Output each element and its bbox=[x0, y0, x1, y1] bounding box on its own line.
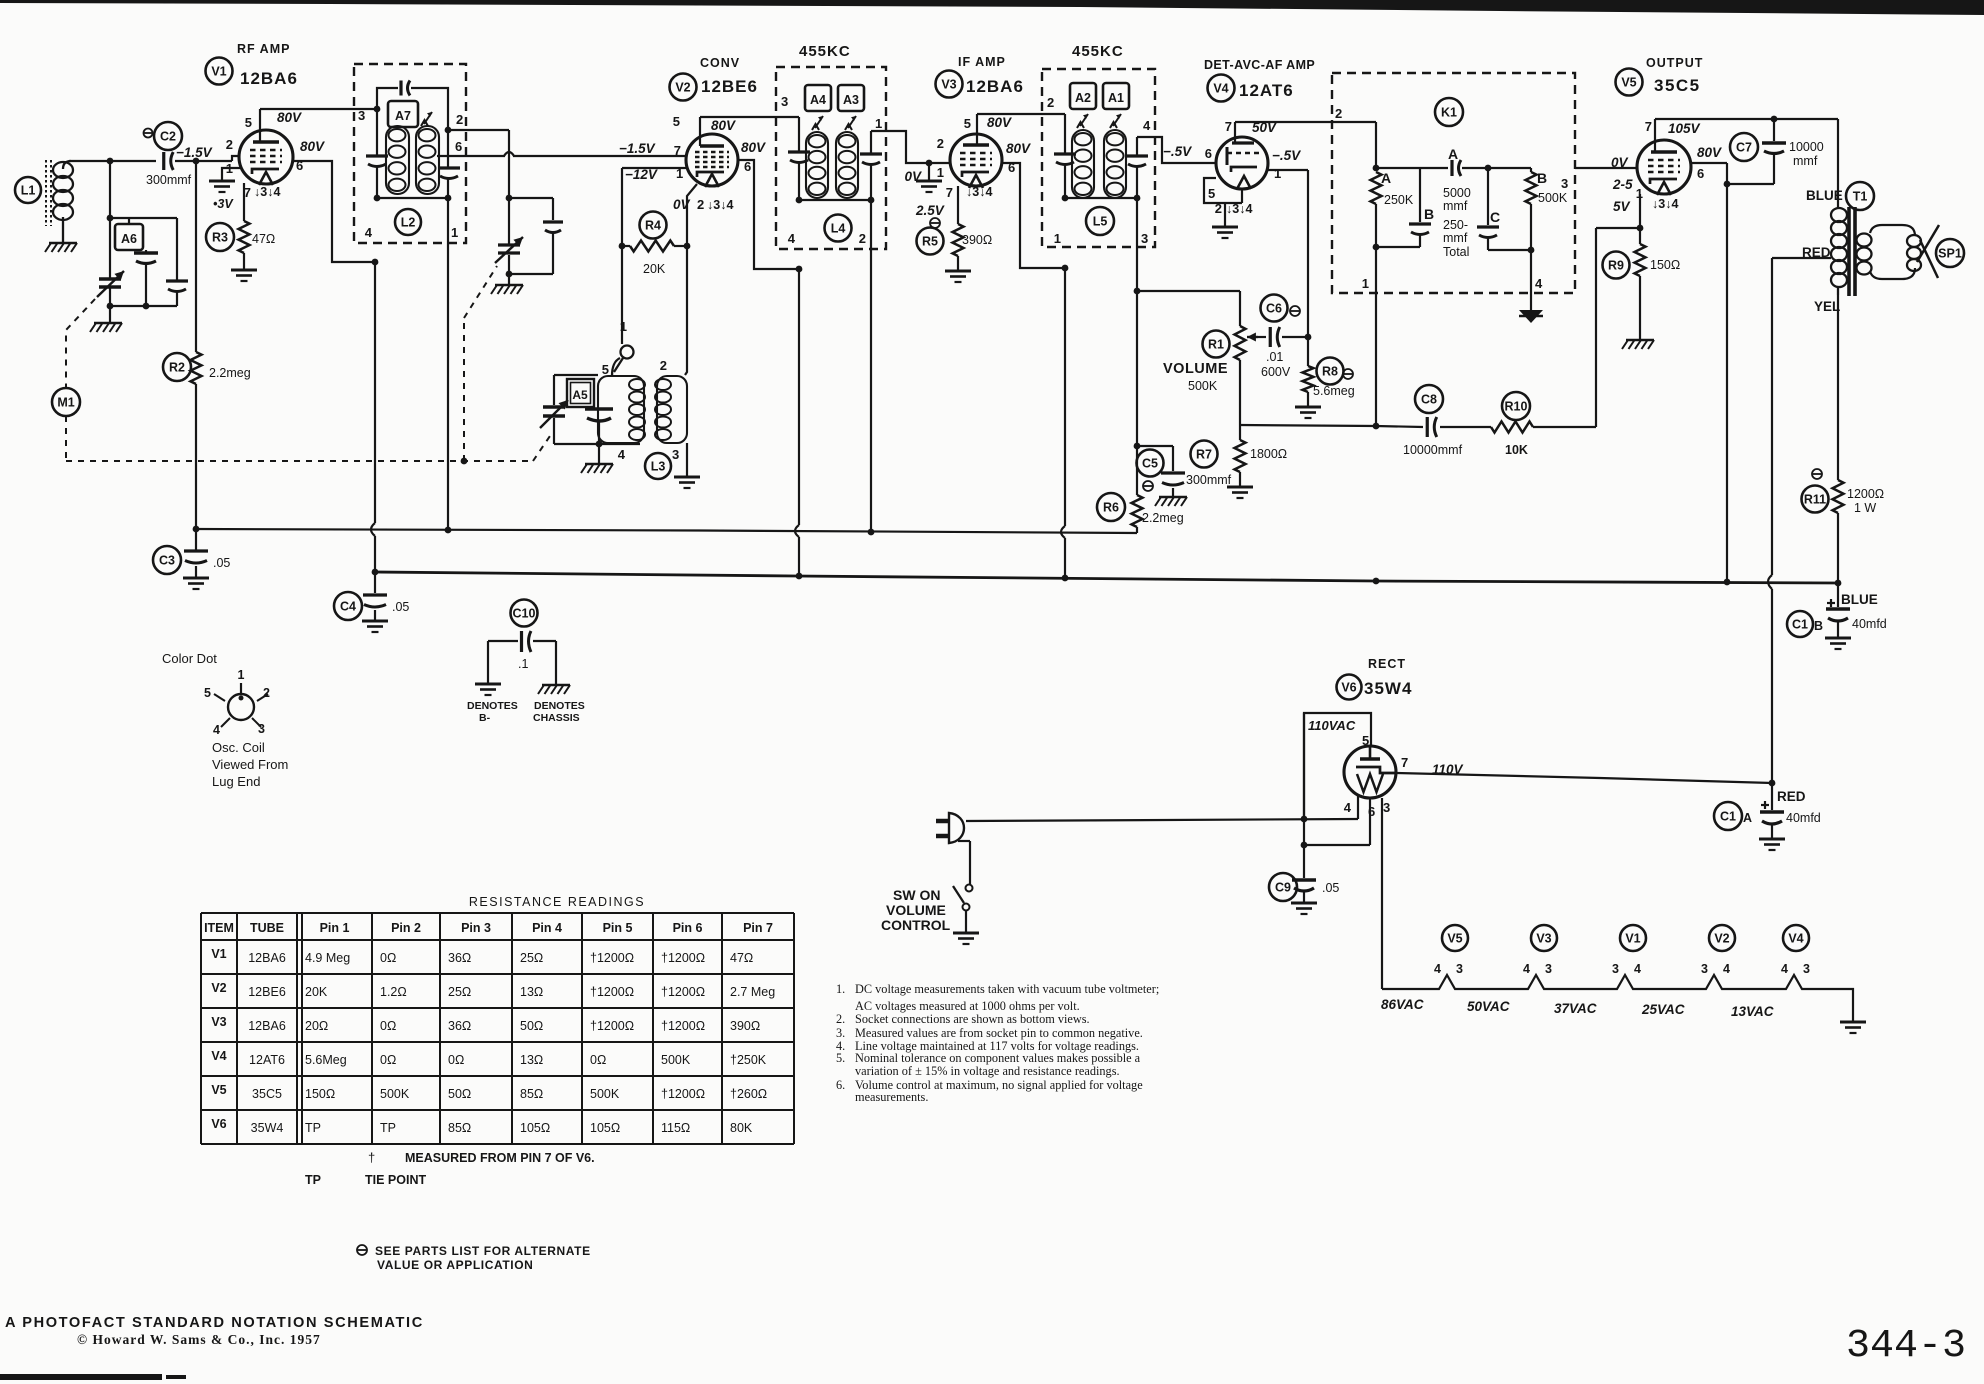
svg-text:R6: R6 bbox=[1103, 501, 1119, 515]
wire to ground bbox=[109, 306, 111, 322]
svg-text:105Ω: 105Ω bbox=[590, 1121, 620, 1135]
tube type 12BA6 bbox=[966, 77, 1024, 96]
svg-text:300mmf: 300mmf bbox=[1186, 473, 1232, 487]
wire K1 node A bbox=[1376, 167, 1448, 169]
svg-text:2.2meg: 2.2meg bbox=[209, 366, 251, 380]
svg-text:250K: 250K bbox=[1384, 193, 1414, 207]
pin 7 bbox=[1225, 119, 1232, 134]
ground bbox=[1825, 638, 1851, 649]
pin 1 bbox=[238, 668, 245, 682]
pin 4 bbox=[1781, 962, 1788, 976]
resistor A 250K bbox=[1371, 172, 1382, 247]
svg-text:MEASURED FROM PIN 7 OF V6.: MEASURED FROM PIN 7 OF V6. bbox=[405, 1151, 595, 1165]
svg-text:A7: A7 bbox=[395, 109, 411, 123]
wire YEL lead bbox=[1837, 295, 1839, 480]
svg-text:500K: 500K bbox=[661, 1053, 691, 1067]
svg-text:R5: R5 bbox=[922, 235, 938, 249]
svg-text:35W4: 35W4 bbox=[1364, 679, 1412, 698]
wire pin5 bracket bbox=[1304, 713, 1371, 819]
svg-text:RED: RED bbox=[1777, 789, 1806, 804]
wire K1 input bbox=[1375, 122, 1377, 168]
wire V1 cathode bbox=[243, 183, 245, 221]
capacitor C bbox=[1477, 168, 1499, 250]
AC plug bbox=[936, 813, 964, 843]
junction bbox=[1528, 247, 1535, 254]
svg-text:−.5V: −.5V bbox=[1163, 144, 1192, 159]
junction bbox=[1062, 575, 1069, 582]
wire V4 plate bbox=[1235, 122, 1376, 143]
pin 5 bbox=[245, 115, 252, 130]
svg-text:Lug End: Lug End bbox=[212, 774, 260, 789]
svg-text:1: 1 bbox=[451, 225, 458, 240]
svg-text:4: 4 bbox=[1143, 118, 1151, 133]
wire C5 to ground bbox=[1172, 488, 1174, 496]
label 50VAC bbox=[1467, 999, 1510, 1014]
pin 1 bbox=[226, 161, 233, 176]
svg-text:80V: 80V bbox=[277, 110, 302, 125]
svg-text:Pin 2: Pin 2 bbox=[391, 921, 421, 935]
ground bbox=[945, 271, 971, 282]
value 1200ohm 1W bbox=[1847, 487, 1884, 515]
svg-text:150Ω: 150Ω bbox=[1650, 258, 1680, 272]
ground bbox=[491, 285, 523, 294]
svg-text:2: 2 bbox=[226, 137, 233, 152]
slug adjust bbox=[1077, 114, 1088, 128]
ground bbox=[362, 621, 388, 632]
label RED bbox=[1777, 789, 1806, 804]
label 80V bbox=[300, 139, 325, 154]
svg-text:B: B bbox=[1424, 206, 1434, 222]
mechanical link dashed riser bbox=[464, 266, 497, 461]
svg-text:A4: A4 bbox=[810, 93, 826, 107]
pin 3 bbox=[358, 108, 365, 123]
wire L4 bottom bbox=[799, 199, 871, 201]
ground bbox=[1291, 903, 1317, 914]
coil L4 secondary bbox=[836, 132, 858, 198]
svg-text:50VAC: 50VAC bbox=[1467, 999, 1510, 1014]
svg-text:1.: 1. bbox=[836, 982, 845, 996]
label L3 bbox=[645, 453, 671, 479]
value 10000mmf bbox=[1403, 443, 1463, 457]
svg-text:4: 4 bbox=[1434, 962, 1441, 976]
pin 2 bbox=[1215, 201, 1222, 216]
speaker cone lines bbox=[1917, 225, 1939, 278]
label V4 bbox=[1208, 75, 1235, 102]
svg-text:500K: 500K bbox=[1188, 379, 1218, 393]
svg-text:2: 2 bbox=[660, 358, 667, 373]
svg-text:†1200Ω: †1200Ω bbox=[661, 1087, 705, 1101]
tube type 35W4 bbox=[1364, 679, 1412, 698]
capacitor C6 bbox=[1261, 295, 1288, 348]
junction bbox=[1134, 443, 1141, 450]
pin 2 bbox=[456, 112, 463, 127]
svg-text:mmf: mmf bbox=[1443, 231, 1468, 245]
ground B- bbox=[475, 684, 501, 695]
pin 6 bbox=[1205, 146, 1212, 161]
value 47ohm bbox=[252, 232, 275, 246]
resistor R6 bbox=[1097, 446, 1143, 533]
wire wiper to C6 bbox=[1258, 336, 1266, 338]
label A bbox=[1448, 146, 1458, 162]
pin 3 bbox=[672, 447, 679, 462]
junction bbox=[445, 127, 452, 134]
svg-text:12BE6: 12BE6 bbox=[248, 985, 286, 999]
capacitor L2 primary bbox=[366, 156, 388, 167]
pin 4 bbox=[365, 225, 373, 240]
wire RED B+ line bbox=[1768, 258, 1772, 783]
svg-text:4: 4 bbox=[1535, 276, 1543, 291]
svg-text:50Ω: 50Ω bbox=[520, 1019, 543, 1033]
label 2.5V bbox=[915, 203, 945, 218]
pin 3 bbox=[1561, 176, 1568, 191]
label BLUE bbox=[1841, 592, 1878, 607]
wire K1 bottom left bbox=[1376, 246, 1420, 248]
junction bbox=[107, 158, 114, 165]
pin 3 bbox=[1803, 962, 1810, 976]
pin 4 bbox=[1535, 276, 1543, 291]
svg-text:3: 3 bbox=[358, 108, 365, 123]
junction bbox=[107, 215, 114, 222]
svg-text:C3: C3 bbox=[159, 554, 175, 568]
pin 2 bbox=[1047, 95, 1054, 110]
junction bbox=[1835, 580, 1842, 587]
svg-text:CONV: CONV bbox=[700, 56, 740, 70]
label V3 bbox=[936, 71, 963, 98]
label 110VAC bbox=[1308, 718, 1356, 733]
wire V5 cathode bbox=[1639, 194, 1641, 228]
wire V1 plate bbox=[260, 109, 377, 142]
wire R2 to AVC bus bbox=[195, 384, 197, 529]
svg-text:115Ω: 115Ω bbox=[661, 1121, 690, 1135]
wire antenna to C2 bbox=[69, 160, 156, 162]
svg-text:250-: 250- bbox=[1443, 218, 1468, 232]
coil L3 grid winding bbox=[598, 376, 645, 443]
wire C2 to V1 grid bbox=[175, 156, 240, 161]
grid coupling loop bbox=[614, 346, 634, 373]
ground bbox=[90, 323, 122, 332]
wire C10 left bbox=[487, 641, 489, 684]
trimmer capacitor right bbox=[166, 218, 188, 306]
svg-text:Nominal tolerance on component: Nominal tolerance on component values ma… bbox=[855, 1051, 1141, 1065]
label 25VAC bbox=[1641, 1002, 1685, 1017]
svg-text:7: 7 bbox=[1645, 119, 1652, 134]
junction bbox=[1724, 181, 1731, 586]
potentiometer R1 volume bbox=[1203, 291, 1246, 425]
svg-text:2.5V: 2.5V bbox=[915, 203, 945, 218]
svg-text:13Ω: 13Ω bbox=[520, 1053, 543, 1067]
resistor R4 bbox=[630, 212, 674, 252]
svg-text:80K: 80K bbox=[730, 1121, 753, 1135]
svg-text:CHASSIS: CHASSIS bbox=[533, 712, 580, 724]
svg-text:4: 4 bbox=[1523, 962, 1530, 976]
transformer T1 core bbox=[1849, 207, 1855, 296]
svg-text:1.2Ω: 1.2Ω bbox=[380, 985, 407, 999]
svg-text:TP: TP bbox=[305, 1121, 321, 1135]
svg-text:2: 2 bbox=[859, 231, 866, 246]
pins 3 4 heater arrows bbox=[707, 198, 733, 212]
svg-text:80V: 80V bbox=[987, 115, 1012, 130]
junction bbox=[107, 303, 150, 310]
junction bbox=[1305, 334, 1312, 341]
svg-text:Color Dot: Color Dot bbox=[162, 651, 217, 666]
label 80V bbox=[1006, 141, 1031, 156]
wire R8 to ground bbox=[1307, 392, 1309, 407]
mechanical link dashed bbox=[66, 299, 95, 388]
label BLUE bbox=[1806, 188, 1843, 203]
svg-text:0V: 0V bbox=[904, 169, 922, 184]
ground bbox=[45, 243, 77, 252]
value 300mmf bbox=[146, 173, 192, 187]
svg-text:5: 5 bbox=[673, 114, 680, 129]
svg-text:2.2meg: 2.2meg bbox=[1142, 511, 1184, 525]
label -.5V bbox=[1272, 148, 1301, 163]
svg-text:1800Ω: 1800Ω bbox=[1250, 447, 1287, 461]
svg-text:Pin 6: Pin 6 bbox=[673, 921, 703, 935]
pin 4 bbox=[1344, 800, 1352, 815]
value 2.2meg bbox=[209, 366, 251, 380]
junction bbox=[926, 160, 933, 167]
pin 4 bbox=[1634, 962, 1641, 976]
svg-text:Pin 3: Pin 3 bbox=[461, 921, 491, 935]
svg-text:20K: 20K bbox=[305, 985, 328, 999]
label L5 bbox=[1086, 207, 1114, 235]
svg-text:V4: V4 bbox=[1213, 82, 1228, 96]
junction bbox=[1062, 195, 1141, 202]
pin 3 bbox=[1141, 231, 1148, 246]
svg-text:†1200Ω: †1200Ω bbox=[661, 1019, 705, 1033]
wire gang node bbox=[110, 217, 177, 219]
wire pin5 curl bbox=[612, 358, 620, 376]
svg-text:VALUE OR APPLICATION: VALUE OR APPLICATION bbox=[377, 1258, 533, 1272]
oscillator coil base diagram bbox=[214, 683, 268, 727]
svg-text:36Ω: 36Ω bbox=[448, 1019, 471, 1033]
svg-text:TP: TP bbox=[380, 1121, 396, 1135]
polarity mark bbox=[144, 129, 153, 138]
resistor R2 bbox=[163, 161, 202, 384]
junction bbox=[1373, 165, 1380, 172]
speaker voice coil bbox=[1907, 235, 1921, 271]
wire R4 right bbox=[674, 245, 687, 247]
label T1 bbox=[1846, 182, 1874, 210]
svg-text:3: 3 bbox=[1456, 962, 1463, 976]
wire K1 to V5 grid bbox=[1575, 167, 1637, 169]
resistor B 500K bbox=[1526, 168, 1537, 250]
junction bbox=[445, 527, 452, 534]
wire AC bottom bbox=[958, 841, 970, 884]
svg-text:4: 4 bbox=[365, 225, 373, 240]
label 105V bbox=[1668, 121, 1701, 136]
label 80V bbox=[741, 140, 766, 155]
svg-text:C5: C5 bbox=[1142, 457, 1158, 471]
junction bbox=[796, 266, 803, 273]
junction bbox=[1373, 423, 1380, 430]
junction bbox=[461, 458, 468, 465]
antenna coil L1 bbox=[46, 160, 73, 242]
svg-text:R3: R3 bbox=[212, 231, 228, 245]
wire L5 pin1 to bus bbox=[1061, 268, 1065, 578]
IF transformer L4 box bbox=[776, 67, 886, 249]
wire V4 pins 5 2 to ground bbox=[1204, 178, 1242, 227]
wire K1 node mid bbox=[1462, 167, 1531, 169]
capacitor C8 bbox=[1415, 385, 1443, 437]
label V1 bbox=[206, 58, 233, 85]
svg-text:V2: V2 bbox=[211, 981, 226, 995]
value 390ohm bbox=[962, 233, 992, 247]
svg-text:2: 2 bbox=[1047, 95, 1054, 110]
label OUTPUT bbox=[1646, 56, 1703, 70]
table footnote dagger bbox=[368, 1150, 595, 1165]
svg-text:V1: V1 bbox=[211, 65, 226, 79]
svg-text:.1: .1 bbox=[518, 657, 528, 671]
svg-text:C8: C8 bbox=[1421, 393, 1437, 407]
slug adjust bbox=[1110, 114, 1121, 128]
wire C10 right bbox=[555, 641, 557, 684]
trimmer A4 box bbox=[805, 85, 831, 111]
tube V6 bbox=[1344, 746, 1396, 798]
trimmer A5 box bbox=[567, 379, 594, 407]
label SP1 bbox=[1936, 239, 1964, 267]
wire K1 pin1 down bbox=[1375, 247, 1377, 425]
tube V5 bbox=[1637, 140, 1691, 195]
ground bbox=[674, 477, 700, 488]
svg-text:7: 7 bbox=[674, 143, 681, 158]
svg-text:6: 6 bbox=[1697, 166, 1704, 181]
svg-text:VOLUME: VOLUME bbox=[1163, 361, 1228, 377]
svg-text:3: 3 bbox=[1561, 176, 1568, 191]
svg-text:1 W: 1 W bbox=[1854, 501, 1876, 515]
svg-text:A: A bbox=[1381, 170, 1391, 186]
capacitor C3 bbox=[153, 529, 208, 574]
svg-text:C9: C9 bbox=[1275, 881, 1291, 895]
copyright line bbox=[77, 1332, 321, 1347]
svg-text:600V: 600V bbox=[1261, 365, 1291, 379]
svg-text:C: C bbox=[1490, 209, 1500, 225]
svg-text:SEE PARTS LIST FOR ALTERNATE: SEE PARTS LIST FOR ALTERNATE bbox=[375, 1244, 591, 1258]
label 0V bbox=[904, 169, 922, 184]
svg-text:344-3: 344-3 bbox=[1846, 1324, 1966, 1369]
svg-text:†250K: †250K bbox=[730, 1053, 767, 1067]
wire V3 plate bbox=[977, 114, 1065, 145]
wire AVC to volume bbox=[1137, 290, 1240, 292]
svg-text:47Ω: 47Ω bbox=[730, 951, 753, 965]
wire V3 cathode bbox=[957, 186, 959, 224]
wire L4 pin1 to V3 grid bbox=[871, 131, 950, 163]
svg-text:C10: C10 bbox=[513, 607, 536, 621]
svg-text:10000: 10000 bbox=[1789, 140, 1824, 154]
label C bbox=[1490, 209, 1500, 225]
capacitor C1B bbox=[1826, 583, 1850, 638]
capacitor C7 bbox=[1730, 119, 1786, 184]
svg-text:V1: V1 bbox=[211, 947, 226, 961]
svg-text:R2: R2 bbox=[169, 361, 185, 375]
svg-text:1: 1 bbox=[238, 668, 245, 682]
svg-text:L2: L2 bbox=[401, 216, 416, 230]
pin 7 bbox=[674, 143, 681, 158]
svg-text:3: 3 bbox=[258, 722, 265, 736]
label C1 B bbox=[1787, 611, 1823, 637]
label -.5V bbox=[1163, 144, 1192, 159]
pin 3 bbox=[1456, 962, 1463, 976]
pin 7 bbox=[1645, 119, 1652, 134]
svg-text:80V: 80V bbox=[711, 118, 736, 133]
svg-text:35C5: 35C5 bbox=[252, 1087, 282, 1101]
svg-text:© Howard W. Sams & Co., Inc. 1: © Howard W. Sams & Co., Inc. 1957 bbox=[77, 1332, 321, 1347]
resistor R8 bbox=[1303, 337, 1344, 392]
wire V2 osc grid bbox=[622, 168, 686, 344]
svg-text:mmf: mmf bbox=[1443, 199, 1468, 213]
wire heater chain bbox=[1382, 975, 1853, 1022]
svg-text:1: 1 bbox=[1362, 276, 1369, 291]
svg-text:C2: C2 bbox=[160, 130, 176, 144]
svg-text:†1200Ω: †1200Ω bbox=[590, 985, 634, 999]
capacitor B bbox=[1409, 168, 1431, 247]
svg-text:C6: C6 bbox=[1266, 302, 1282, 316]
svg-text:4: 4 bbox=[1344, 800, 1352, 815]
svg-text:DENOTES: DENOTES bbox=[467, 700, 518, 712]
pin 4 bbox=[1143, 118, 1151, 133]
junction bbox=[193, 158, 200, 165]
label -1.5V bbox=[176, 145, 213, 160]
pin 2 bbox=[859, 231, 866, 246]
svg-text:2: 2 bbox=[697, 197, 704, 212]
label RED bbox=[1802, 245, 1831, 260]
wire L2 pin4 to bus bbox=[371, 262, 375, 572]
svg-text:1: 1 bbox=[937, 165, 944, 180]
svg-text:7: 7 bbox=[1225, 119, 1232, 134]
svg-text:3: 3 bbox=[781, 94, 788, 109]
scan border top bbox=[0, 0, 1984, 15]
wire V2 plate bbox=[700, 117, 799, 146]
mechanical link dashed to osc bbox=[533, 433, 552, 461]
value 40mfd bbox=[1786, 811, 1821, 825]
svg-text:4: 4 bbox=[618, 447, 626, 462]
svg-text:RF AMP: RF AMP bbox=[237, 42, 290, 56]
svg-text:7: 7 bbox=[946, 185, 953, 200]
label B bbox=[1537, 170, 1547, 186]
svg-text:A: A bbox=[1743, 811, 1752, 825]
ground bbox=[1227, 487, 1253, 498]
polarity mark bbox=[930, 218, 940, 228]
resistor R11 bbox=[1802, 480, 1844, 513]
wire pin1 to ground bbox=[222, 168, 240, 181]
padder capacitor bbox=[585, 409, 613, 444]
svg-text:.01: .01 bbox=[1266, 350, 1283, 364]
label 0V bbox=[1611, 155, 1629, 170]
svg-text:V3: V3 bbox=[941, 78, 956, 92]
pins 3 4 heater arrows bbox=[1226, 202, 1252, 216]
svg-text:C1: C1 bbox=[1720, 810, 1736, 824]
junction bbox=[506, 195, 513, 202]
label V5 bbox=[1616, 69, 1643, 96]
wire R7 to ground bbox=[1239, 472, 1241, 487]
svg-text:1: 1 bbox=[1054, 231, 1061, 246]
svg-text:5: 5 bbox=[1362, 733, 1369, 748]
wire C3 to ground bbox=[195, 566, 197, 578]
svg-text:5: 5 bbox=[1208, 186, 1215, 201]
label 86VAC bbox=[1381, 997, 1424, 1012]
svg-text:IF AMP: IF AMP bbox=[958, 55, 1006, 69]
svg-text:500K: 500K bbox=[380, 1087, 410, 1101]
svg-text:6: 6 bbox=[1205, 146, 1212, 161]
capacitor C10 bbox=[488, 600, 556, 653]
label SW ON VOLUME CONTROL bbox=[881, 887, 951, 933]
svg-text:↓3↓4: ↓3↓4 bbox=[966, 185, 992, 199]
capacitor L5 primary bbox=[1054, 154, 1076, 165]
svg-text:↓3↓4: ↓3↓4 bbox=[1652, 197, 1678, 211]
pin 3 bbox=[1383, 800, 1390, 815]
svg-text:500K: 500K bbox=[590, 1087, 620, 1101]
svg-text:3: 3 bbox=[1141, 231, 1148, 246]
